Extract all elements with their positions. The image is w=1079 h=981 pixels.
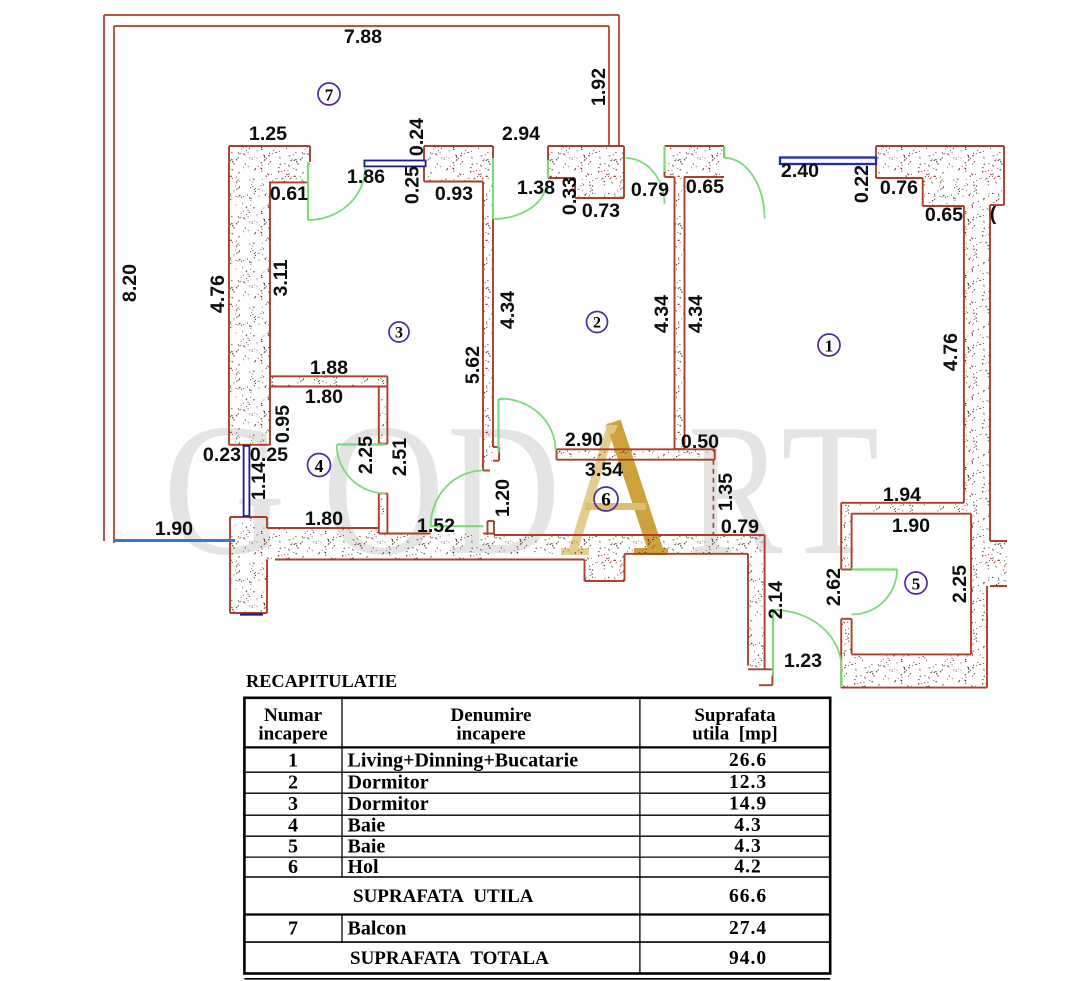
svg-text:Living+Dinning+Bucatarie: Living+Dinning+Bucatarie [348,749,579,771]
svg-text:2.51: 2.51 [389,438,411,476]
svg-text:4.34: 4.34 [651,295,673,333]
svg-text:Dormitor: Dormitor [348,793,429,815]
svg-text:2.40: 2.40 [781,160,819,182]
svg-text:5.62: 5.62 [462,346,484,384]
svg-text:1.25: 1.25 [249,123,287,145]
svg-text:6: 6 [601,490,611,511]
svg-text:27.4: 27.4 [729,918,767,939]
svg-text:0.65: 0.65 [925,204,963,226]
svg-text:5: 5 [288,836,298,858]
svg-text:3: 3 [288,793,298,815]
svg-text:0.50: 0.50 [681,431,719,453]
svg-text:1.80: 1.80 [305,508,343,530]
svg-text:0.79: 0.79 [721,516,759,538]
svg-text:94.0: 94.0 [729,948,767,969]
svg-text:SUPRAFATA UTILA: SUPRAFATA UTILA [353,886,534,907]
svg-text:6: 6 [288,856,298,878]
svg-text:0.23: 0.23 [203,444,241,466]
svg-text:2.90: 2.90 [565,429,603,451]
svg-text:1.88: 1.88 [310,357,348,379]
svg-text:7: 7 [325,86,334,105]
svg-text:0.79: 0.79 [631,179,669,201]
svg-text:1.80: 1.80 [305,386,343,408]
svg-text:1: 1 [288,749,298,771]
svg-text:3.54: 3.54 [585,459,623,481]
svg-text:0.22: 0.22 [851,165,873,203]
svg-text:4.76: 4.76 [940,333,962,371]
svg-text:0.33: 0.33 [559,177,581,215]
svg-text:1.14: 1.14 [248,462,270,500]
svg-text:1: 1 [825,337,834,356]
svg-text:3: 3 [395,325,403,342]
svg-text:Dormitor: Dormitor [348,772,429,794]
svg-text:12.3: 12.3 [729,772,767,793]
svg-text:RECAPITULATIE: RECAPITULATIE [246,671,397,691]
svg-text:1.94: 1.94 [883,484,921,506]
svg-text:2.14: 2.14 [765,581,787,619]
svg-text:2: 2 [288,772,298,794]
svg-text:1.20: 1.20 [492,479,514,517]
svg-text:0.61: 0.61 [270,183,308,205]
svg-text:4: 4 [288,815,298,837]
svg-text:Baie: Baie [348,836,386,858]
svg-text:8.20: 8.20 [119,264,141,302]
svg-text:66.6: 66.6 [729,886,767,907]
svg-text:2: 2 [593,315,601,332]
svg-text:utila [mp]: utila [mp] [692,724,778,745]
svg-text:2.25: 2.25 [355,436,377,474]
svg-text:0.73: 0.73 [582,200,620,222]
svg-text:1.38: 1.38 [517,177,555,199]
svg-text:7: 7 [288,917,298,939]
svg-text:1.52: 1.52 [417,515,455,537]
svg-text:0.25: 0.25 [402,166,424,204]
svg-text:3.11: 3.11 [270,259,292,296]
svg-text:0.95: 0.95 [272,405,294,443]
svg-text:4.2: 4.2 [734,857,761,878]
svg-text:7.88: 7.88 [344,26,382,48]
svg-text:1.92: 1.92 [588,68,610,106]
svg-text:2.62: 2.62 [823,568,845,606]
svg-text:Baie: Baie [348,815,386,837]
svg-text:4.34: 4.34 [497,291,519,329]
svg-text:5: 5 [912,575,921,594]
svg-text:SUPRAFATA TOTALA: SUPRAFATA TOTALA [350,948,549,969]
svg-text:4.3: 4.3 [734,836,761,857]
svg-text:1.35: 1.35 [715,473,737,511]
svg-text:(: ( [990,203,997,225]
svg-text:14.9: 14.9 [729,794,767,815]
svg-text:0.24: 0.24 [406,118,428,156]
svg-text:1.90: 1.90 [155,518,193,540]
svg-text:0.65: 0.65 [686,176,724,198]
svg-text:4.3: 4.3 [734,815,761,836]
svg-text:1.90: 1.90 [892,515,930,537]
svg-text:Balcon: Balcon [348,917,407,939]
svg-text:incapere: incapere [456,724,525,745]
svg-text:4.76: 4.76 [207,275,229,313]
svg-text:4: 4 [315,456,324,476]
svg-text:0.76: 0.76 [880,177,918,199]
svg-text:26.6: 26.6 [729,750,767,771]
svg-text:0.93: 0.93 [435,183,473,205]
svg-text:2.94: 2.94 [502,123,540,145]
svg-text:1.86: 1.86 [347,166,385,188]
svg-text:2.25: 2.25 [949,565,971,603]
svg-text:Hol: Hol [348,856,380,878]
svg-text:1.23: 1.23 [784,650,822,672]
svg-text:incapere: incapere [258,724,327,745]
svg-text:T: T [781,385,879,594]
svg-text:4.34: 4.34 [685,295,707,333]
